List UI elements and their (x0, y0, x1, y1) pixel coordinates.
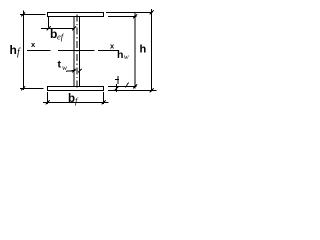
svg-text:h: h (10, 43, 17, 57)
tick t_w left (72, 69, 76, 73)
tick h bottom (150, 89, 154, 93)
dimension b_ef extension (48, 17, 50, 28)
svg-text:w: w (62, 63, 67, 72)
dimension b_f extension right (103, 92, 105, 104)
tick t_w right (78, 69, 82, 73)
tick h_w top (133, 15, 137, 19)
wire top flange break line upper (106, 12, 153, 14)
dimension h line (151, 9, 153, 92)
web centerline (76, 15, 78, 93)
dimension h_w line (134, 13, 136, 89)
tick h_w bottom (133, 85, 137, 89)
tick b_ef left (47, 27, 51, 31)
tick h top (150, 11, 154, 15)
bottom flange (48, 87, 104, 91)
node axis x-x segment right (98, 50, 119, 52)
wire bottom flange break line upper (108, 86, 137, 88)
svg-text:h: h (140, 44, 147, 56)
dimension h_f line (23, 11, 25, 91)
dimension h_f extension top (20, 14, 46, 16)
tick h_f bottom (21, 87, 25, 91)
svg-text:b: b (68, 93, 75, 105)
svg-text:t: t (58, 59, 62, 71)
svg-text:h: h (117, 49, 123, 61)
tick b_ef right (72, 27, 76, 31)
node axis x-x segment middle (58, 50, 95, 52)
dimension h_f extension bottom (20, 88, 44, 90)
svg-text:w: w (124, 52, 129, 61)
dimension b_f line (43, 102, 109, 104)
dimension t_f line (116, 84, 118, 92)
web left wall (73, 17, 75, 87)
top flange (48, 13, 104, 17)
wire bottom flange break line lower (108, 90, 157, 92)
label t_f (115, 76, 119, 84)
tick t_f right mark (126, 83, 129, 88)
node axis x-x segment left (27, 50, 51, 52)
wire top flange break line lower (108, 16, 137, 18)
dimension b_f extension left (47, 92, 49, 104)
dimension b_ef line (41, 28, 75, 30)
tick b_f left (46, 101, 50, 105)
web right wall (79, 17, 81, 87)
tick b_f right (102, 101, 106, 105)
tick h_f top (21, 13, 25, 17)
dimension t_w leader (66, 69, 76, 72)
tick t_f (115, 87, 119, 91)
